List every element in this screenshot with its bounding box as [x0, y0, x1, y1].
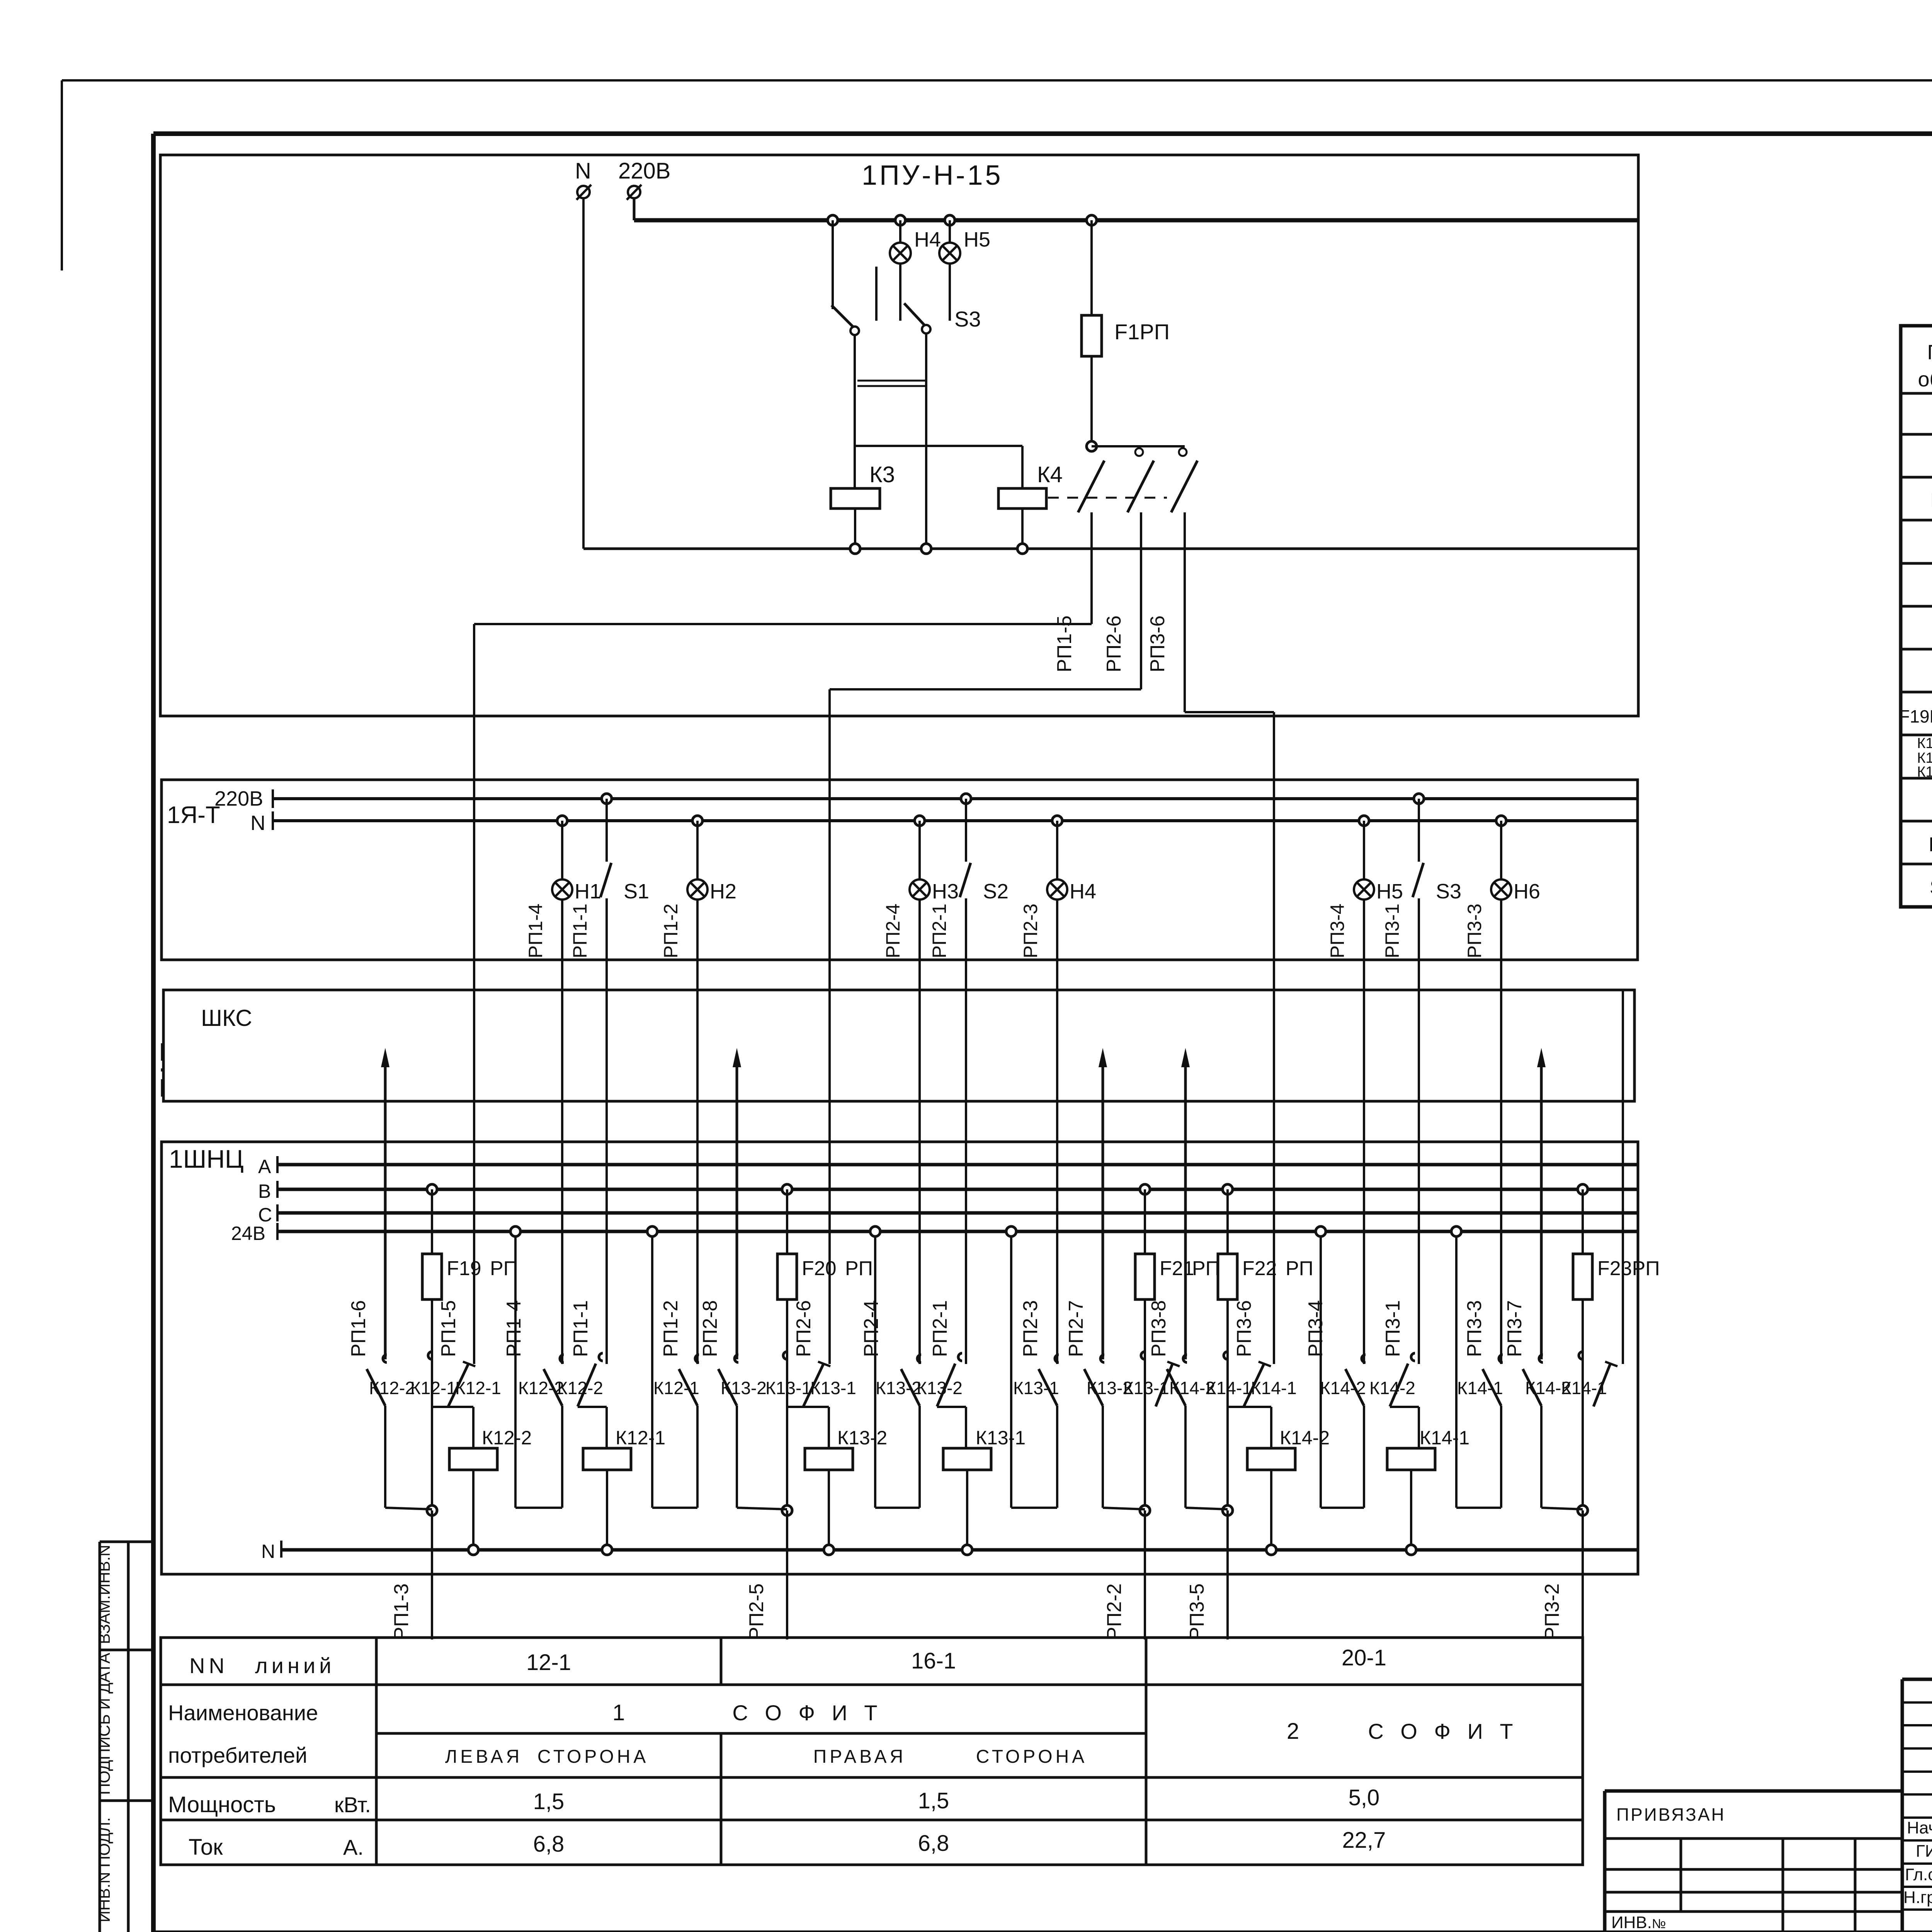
svg-text:К14-2: К14-2 [1280, 1427, 1330, 1449]
svg-text:РП2-8: РП2-8 [699, 1300, 721, 1357]
svg-text:РП: РП [1286, 1257, 1313, 1280]
svg-text:F1РП: F1РП [1114, 320, 1170, 344]
svg-text:1: 1 [612, 1700, 625, 1725]
panel N return rail [583, 548, 1638, 550]
svg-text:РП1-3: РП1-3 [390, 1583, 413, 1640]
box ШКС [163, 990, 1634, 1101]
svg-text:РП1-4: РП1-4 [525, 903, 546, 958]
svg-text:СТОРОНА: СТОРОНА [976, 1747, 1088, 1767]
svg-text:К13-2: К13-2 [876, 1378, 922, 1398]
wire to ШКС with arrow [1102, 1055, 1104, 1359]
svg-text:РП1-4: РП1-4 [503, 1300, 525, 1357]
fuse F22РП trunk [1223, 1184, 1233, 1194]
svg-text:12-1: 12-1 [526, 1650, 571, 1675]
svg-text:К12-1: К12-1 [455, 1378, 501, 1398]
svg-text:РП3-6: РП3-6 [1146, 616, 1169, 672]
svg-text:Н4: Н4 [914, 228, 941, 251]
U-turn to 24В [1363, 1406, 1365, 1508]
contact K4.3 [1171, 461, 1197, 512]
svg-text:РП2-7: РП2-7 [1065, 1300, 1087, 1357]
svg-text:F19: F19 [447, 1257, 481, 1280]
svg-text:Н1: Н1 [575, 880, 601, 903]
left vertical label strip [99, 1542, 101, 1932]
svg-text:К13-1: К13-1 [810, 1378, 856, 1398]
jog to coil [432, 1406, 473, 1408]
svg-text:ПРИВЯЗАН: ПРИВЯЗАН [1616, 1804, 1726, 1825]
svg-text:2: 2 [1287, 1719, 1299, 1744]
contact K4.1 [1135, 448, 1143, 456]
svg-text:1Я-Т: 1Я-Т [167, 802, 220, 828]
svg-text:обознач.: обознач. [1918, 368, 1932, 391]
element list table frame [1901, 326, 1932, 907]
svg-text:ИНВ.N ПОДЛ.: ИНВ.N ПОДЛ. [95, 1817, 113, 1922]
svg-text:А.: А. [343, 1835, 364, 1859]
contact К13-1 on trunk [1141, 1352, 1145, 1359]
coil К12-2 [472, 1407, 474, 1448]
sheet outer border [62, 79, 1932, 82]
svg-text:РП3-2: РП3-2 [1541, 1583, 1563, 1640]
svg-text:РП1-2: РП1-2 [660, 903, 682, 958]
svg-text:РП2-5: РП2-5 [745, 1583, 768, 1640]
lamp Н5 [1359, 816, 1369, 826]
svg-text:кВт.: кВт. [334, 1793, 371, 1817]
switch S3 pole 2 [922, 325, 930, 333]
bus 220В in panel [634, 218, 1638, 223]
svg-text:1,5: 1,5 [918, 1788, 949, 1813]
svg-text:F23РП: F23РП [1597, 1257, 1660, 1280]
lamp Н6 [1496, 816, 1506, 826]
svg-text:Позиц.: Позиц. [1927, 341, 1932, 364]
svg-text:потребителей: потребителей [168, 1743, 307, 1767]
svg-text:РП3-3: РП3-3 [1464, 903, 1485, 958]
svg-text:S2: S2 [983, 880, 1009, 903]
contact К13-1 on lamp wire [1055, 1355, 1059, 1362]
svg-text:С О Ф И Т: С О Ф И Т [1368, 1719, 1518, 1743]
svg-text:F19РП÷F23РН: F19РП÷F23РН [1899, 706, 1932, 726]
U-turn to 24В [561, 1406, 563, 1508]
wire to ШКС with arrow [384, 1055, 387, 1359]
lamp Н1 [557, 816, 567, 826]
svg-text:К14-1: К14-1 [1457, 1378, 1503, 1398]
lamp Н4 [1052, 816, 1062, 826]
drawing frame [153, 131, 1932, 136]
svg-text:5,0: 5,0 [1349, 1785, 1380, 1810]
break marks [1005, 779, 1078, 781]
svg-text:РП1-6: РП1-6 [347, 1300, 370, 1357]
svg-text:Н3: Н3 [932, 880, 959, 903]
svg-text:В: В [258, 1180, 271, 1202]
U-turn to 24В [1056, 1406, 1058, 1508]
svg-text:РП2-3: РП2-3 [1019, 1300, 1042, 1357]
signature table [1902, 1678, 1932, 1681]
svg-text:РП2-2: РП2-2 [1103, 1583, 1126, 1640]
svg-text:РП3-4: РП3-4 [1304, 1300, 1327, 1357]
fuse F19РП trunk [427, 1184, 437, 1194]
svg-text:22,7: 22,7 [1342, 1828, 1386, 1853]
svg-text:К12-1, К12-2: К12-1, К12-2 [1917, 735, 1932, 752]
svg-text:Нач.отд.: Нач.отд. [1907, 1818, 1932, 1837]
svg-text:РП1-5: РП1-5 [437, 1300, 460, 1357]
panel box 1ПУ-Н-15 [160, 155, 1638, 716]
svg-text:РП2-1: РП2-1 [929, 903, 950, 958]
svg-text:РП3-7: РП3-7 [1503, 1300, 1526, 1357]
svg-text:РП2-3: РП2-3 [1020, 903, 1041, 958]
svg-text:К12-2: К12-2 [369, 1378, 415, 1398]
svg-text:S3: S3 [954, 307, 981, 331]
svg-text:ПРАВАЯ: ПРАВАЯ [813, 1747, 906, 1767]
svg-text:Н6: Н6 [1514, 880, 1540, 903]
svg-text:РП: РП [845, 1257, 873, 1280]
svg-text:К4: К4 [1037, 462, 1063, 487]
svg-text:РП3-4: РП3-4 [1327, 903, 1348, 958]
coil К13-2 [828, 1407, 830, 1448]
node on trunk РП3-5 [1223, 1505, 1233, 1515]
contact К12-2 on switch wire [599, 1353, 603, 1361]
svg-text:Наименование: Наименование [168, 1701, 318, 1725]
wire drop to S3 pole 1 [828, 215, 838, 225]
U-turn to 24В [918, 1406, 921, 1508]
svg-text:К12-2: К12-2 [557, 1378, 603, 1398]
svg-text:Н4,Н5: Н4,Н5 [1930, 488, 1932, 512]
svg-text:Н4: Н4 [1070, 880, 1096, 903]
svg-text:S3: S3 [1436, 880, 1461, 903]
coil К14-1 [1418, 1407, 1420, 1448]
contact К13-2 on switch wire [958, 1353, 962, 1361]
contact К12-2 on lamp wire [560, 1355, 564, 1362]
wire to ШКС with arrow [736, 1055, 738, 1359]
switch S2 [961, 794, 971, 804]
node line for K4 contacts [1087, 441, 1097, 451]
svg-text:Н.гр.инж: Н.гр.инж [1903, 1888, 1932, 1907]
box 1ШНЦ [162, 1142, 1638, 1574]
svg-text:ЛЕВАЯ: ЛЕВАЯ [445, 1747, 523, 1767]
svg-text:К13-2: К13-2 [917, 1378, 963, 1398]
jog to coil [1228, 1406, 1271, 1408]
svg-text:С О Ф И Т: С О Ф И Т [732, 1701, 883, 1725]
svg-text:РП: РП [1192, 1257, 1220, 1280]
svg-text:20-1: 20-1 [1342, 1645, 1386, 1670]
svg-text:ШКС: ШКС [201, 1005, 252, 1031]
svg-text:N: N [261, 1541, 275, 1562]
svg-text:Н5: Н5 [1376, 880, 1403, 903]
svg-text:Н5: Н5 [964, 228, 990, 251]
contact К12-1 on lamp wire [695, 1355, 699, 1362]
svg-text:220В: 220В [214, 787, 263, 810]
jog to coil [787, 1406, 829, 1408]
lamp H4 [895, 215, 905, 225]
svg-text:РП3-1: РП3-1 [1382, 1300, 1404, 1357]
svg-text:РП: РП [490, 1257, 518, 1280]
node on trunk РП2-5 [782, 1505, 792, 1515]
svg-text:К13-2: К13-2 [837, 1427, 887, 1449]
svg-text:линий: линий [255, 1653, 335, 1678]
svg-text:Ток: Ток [189, 1835, 223, 1860]
svg-text:РП1-2: РП1-2 [660, 1300, 682, 1357]
svg-text:1,5: 1,5 [533, 1789, 565, 1814]
switch S3 [1414, 794, 1424, 804]
contact К13-2 on lamp wire [917, 1355, 921, 1362]
svg-text:F21: F21 [1160, 1257, 1194, 1280]
coil К14-2 [1270, 1407, 1272, 1448]
switch S3 blades [832, 305, 853, 327]
svg-text:6,8: 6,8 [918, 1831, 949, 1856]
consumer table frame [161, 1638, 1583, 1865]
svg-text:К13-2: К13-2 [721, 1378, 767, 1398]
svg-text:Н1÷Н6: Н1÷Н6 [1929, 833, 1932, 856]
fuse F21РП trunk [1140, 1184, 1150, 1194]
svg-text:РП2-4: РП2-4 [882, 903, 904, 958]
svg-text:К14-2: К14-2 [1525, 1378, 1571, 1398]
svg-text:А: А [258, 1156, 271, 1177]
fuse F23РП trunk [1578, 1184, 1588, 1194]
svg-text:РП1-1: РП1-1 [569, 903, 591, 958]
contact К14-1 on trunk [1224, 1352, 1228, 1359]
node on trunk РП2-2 [1140, 1505, 1150, 1515]
svg-text:S1: S1 [624, 880, 649, 903]
svg-text:16-1: 16-1 [911, 1648, 956, 1673]
svg-text:К13-1: К13-1 [976, 1427, 1026, 1449]
fuse F1РП [1087, 215, 1097, 225]
svg-text:24В: 24В [231, 1223, 265, 1244]
svg-text:РП3-1: РП3-1 [1381, 903, 1403, 958]
svg-text:К14-2: К14-2 [1369, 1378, 1415, 1398]
svg-text:РП2-4: РП2-4 [860, 1300, 883, 1357]
svg-text:NN: NN [189, 1653, 228, 1678]
svg-text:К12-1: К12-1 [653, 1378, 699, 1398]
svg-text:СТОРОНА: СТОРОНА [537, 1747, 649, 1767]
svg-text:К12-1: К12-1 [616, 1427, 665, 1449]
svg-text:Н2: Н2 [710, 880, 736, 903]
fuse F20РП trunk [782, 1184, 792, 1194]
U-turn to 24В [696, 1406, 699, 1508]
svg-text:Мощность: Мощность [168, 1792, 276, 1817]
svg-text:1ПУ-Н-15: 1ПУ-Н-15 [862, 160, 1003, 191]
svg-text:К14-1, К14-2: К14-1, К14-2 [1917, 764, 1932, 780]
wire to ШКС with arrow [1540, 1055, 1543, 1359]
svg-text:РП3-5: РП3-5 [1186, 1583, 1208, 1640]
lamp H5 [945, 215, 955, 225]
svg-text:К14-2: К14-2 [1320, 1378, 1366, 1398]
svg-text:Гл.спец.: Гл.спец. [1905, 1865, 1932, 1884]
svg-text:РП1-1: РП1-1 [570, 1300, 592, 1357]
feeder wire to К14-1 blade [1622, 990, 1624, 1364]
svg-text:РП3-8: РП3-8 [1148, 1300, 1170, 1357]
svg-text:ПОДПИСЬ И ДАТА: ПОДПИСЬ И ДАТА [95, 1653, 113, 1795]
svg-text:ГИП: ГИП [1916, 1842, 1932, 1861]
contact К14-2 on lamp wire [1362, 1355, 1366, 1362]
svg-text:К14-1: К14-1 [1251, 1378, 1297, 1398]
privjazan box [1605, 1789, 1902, 1793]
svg-text:F22: F22 [1242, 1257, 1277, 1280]
lamp Н2 [692, 816, 702, 826]
contact К14-1 on lamp wire [1499, 1355, 1503, 1362]
contact K4.2 [1179, 448, 1187, 456]
svg-text:РП2-6: РП2-6 [1103, 616, 1125, 672]
mechanical link dashes K4 [1048, 497, 1167, 499]
contact К13-1 on trunk [783, 1352, 787, 1359]
svg-text:6,8: 6,8 [533, 1832, 565, 1857]
svg-text:К14-2: К14-2 [1169, 1378, 1215, 1398]
svg-text:К12-2: К12-2 [482, 1427, 532, 1449]
svg-text:РП2-6: РП2-6 [793, 1300, 815, 1357]
stub wire [875, 267, 878, 321]
svg-text:К3: К3 [869, 462, 895, 487]
svg-text:К13-1: К13-1 [1013, 1378, 1059, 1398]
svg-text:РП3-6: РП3-6 [1233, 1300, 1255, 1357]
svg-text:1ШНЦ: 1ШНЦ [169, 1145, 244, 1173]
svg-text:РП2-1: РП2-1 [929, 1300, 951, 1357]
contact К14-2 on switch wire [1411, 1353, 1415, 1361]
coil К13-1 [965, 1407, 967, 1448]
node on trunk РП1-3 [427, 1505, 437, 1515]
svg-text:К12-1: К12-1 [410, 1378, 456, 1398]
svg-text:220В: 220В [618, 158, 670, 184]
switch S1 [602, 794, 612, 804]
svg-text:ВЗАМ.ИНВ.N: ВЗАМ.ИНВ.N [95, 1545, 113, 1644]
coil К12-1 [605, 1407, 608, 1448]
contact К14-1 on trunk [1579, 1352, 1583, 1359]
node on trunk РП3-2 [1578, 1505, 1588, 1515]
svg-text:К13-1: К13-1 [765, 1378, 811, 1398]
svg-text:К13-2: К13-2 [1087, 1378, 1133, 1398]
svg-text:S1÷S3: S1÷S3 [1930, 876, 1932, 899]
contact К12-1 on trunk [428, 1352, 432, 1359]
svg-text:К14-1: К14-1 [1420, 1427, 1469, 1449]
svg-text:РП3-3: РП3-3 [1463, 1300, 1486, 1357]
svg-text:N: N [575, 158, 591, 184]
wire to ШКС with arrow [1184, 1055, 1187, 1359]
lamp Н3 [915, 816, 925, 826]
switch S3 pole 1 [850, 327, 859, 335]
svg-text:N: N [250, 811, 265, 835]
box 1Я-Т [162, 780, 1638, 960]
switch S3 mechanical link [857, 380, 927, 382]
U-turn to 24В [1500, 1406, 1502, 1508]
svg-text:F20: F20 [802, 1257, 837, 1280]
